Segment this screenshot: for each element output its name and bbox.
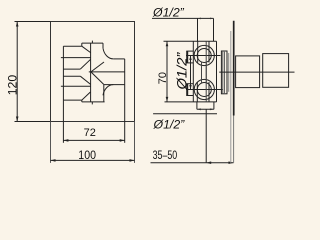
top arm bottom edge <box>63 68 80 70</box>
valve body front: left arms vertical edge <box>62 46 64 100</box>
arrow top stub left <box>198 18 202 20</box>
arrow 35-50 right <box>229 161 234 164</box>
bottom arm bottom chamfer <box>82 92 91 100</box>
upper port circle inner <box>197 49 211 63</box>
arrow 120 bottom <box>16 117 19 122</box>
dimension line 35-50 <box>151 162 234 164</box>
extension line bottom for dim 120 <box>15 121 51 123</box>
dimension line 100 <box>51 159 135 161</box>
block right edge <box>216 41 218 102</box>
wall line <box>230 31 232 163</box>
top step vertical <box>81 43 83 46</box>
lower port circle outer <box>194 79 214 99</box>
svg-text:70: 70 <box>157 72 169 84</box>
arrow 100 left <box>51 159 56 162</box>
body bottom-right arc <box>103 85 113 96</box>
escutcheon plate side <box>233 21 235 116</box>
lower circle centerline <box>186 89 223 91</box>
svg-text:Ø1/2”: Ø1/2” <box>153 117 186 131</box>
tube waist left wall <box>201 62 203 83</box>
arrow top stub right <box>210 18 214 20</box>
body mid horizontal line <box>89 71 125 73</box>
block top edge with extension to 70 dim <box>164 40 217 42</box>
bottom port leader line <box>153 113 217 115</box>
body right edge <box>124 59 126 85</box>
lower inner dia tick bottom <box>186 95 193 97</box>
upper circle centerline <box>186 55 221 57</box>
bottom stub left wall <box>196 102 198 109</box>
upper port circle outer <box>194 45 214 65</box>
arrow ports dim bottom <box>189 85 191 90</box>
tube waist right wall <box>205 62 207 83</box>
bottom arm top chamfer <box>80 76 90 84</box>
bottom arm top edge <box>63 75 80 77</box>
svg-text:120: 120 <box>6 75 20 96</box>
lower inner dia tick top <box>186 83 193 85</box>
extension line 100 right <box>134 122 136 163</box>
front view: wall plate 100x120 <box>51 22 135 122</box>
top stub right wall <box>213 18 215 41</box>
arrow 35-50 left <box>206 161 211 164</box>
bottom stub right wall <box>213 102 215 109</box>
plate extension down <box>233 116 235 163</box>
extension line 72 left <box>62 100 64 143</box>
vertical dim line between port centers <box>190 56 192 90</box>
arrow 100 right <box>130 159 135 162</box>
body inner diagonal lower <box>91 72 104 85</box>
body bottom edge right <box>104 84 125 86</box>
svg-text:35–50: 35–50 <box>153 149 178 163</box>
arrow 120 top <box>16 22 19 27</box>
top arm bottom chamfer <box>80 59 90 69</box>
top arm top chamfer <box>82 46 91 52</box>
block bottom edge with extension to 70 dim <box>165 101 217 103</box>
svg-text:Ø1/2”: Ø1/2” <box>174 51 189 90</box>
handle hub rect <box>236 56 260 88</box>
tube top cap <box>82 42 103 44</box>
bottom stub end cap <box>197 108 214 110</box>
top stub wall continuation right <box>208 41 210 62</box>
neck inner vertical 2 <box>222 51 224 94</box>
lower port circle inner <box>197 83 211 97</box>
svg-text:Ø1/2”: Ø1/2” <box>152 6 185 20</box>
tube right wall lower <box>103 85 105 102</box>
dimension line 120 <box>16 22 18 122</box>
center vertical through block <box>205 41 207 102</box>
neck-plate joint line <box>228 53 230 92</box>
upper dia arrow bar <box>186 51 188 63</box>
tube right wall upper <box>102 43 104 48</box>
tube bottom tick <box>91 102 93 105</box>
lower dia arrow bar <box>186 84 188 96</box>
tube top tick <box>91 41 93 44</box>
bottom stub wall continuation right <box>208 82 210 102</box>
dimension line 70 <box>166 41 168 102</box>
dimension line 72 <box>63 139 124 141</box>
top arm top edge <box>63 45 81 47</box>
body top edge right <box>113 58 124 60</box>
arrow 72 left <box>63 139 68 142</box>
neck inner vertical <box>224 51 226 94</box>
block left edge <box>192 41 194 102</box>
body inner diagonal upper <box>91 62 104 72</box>
arrow 72 right <box>120 139 125 142</box>
arrow bottom stub right <box>210 108 214 110</box>
top stub wall continuation left <box>197 41 199 62</box>
bottom stub extension line down <box>205 109 207 162</box>
extension line top for dim 120 <box>15 21 51 23</box>
bottom stub wall continuation left <box>196 82 198 102</box>
arrow ports dim top <box>189 56 191 61</box>
handle knob rect <box>263 54 289 88</box>
tube left wall <box>90 43 92 102</box>
arrow 70 top <box>166 41 169 46</box>
top stub left wall <box>197 18 199 41</box>
arrow bottom stub left <box>197 108 201 110</box>
bottom arm bottom edge <box>63 99 81 101</box>
top arm mid line <box>61 57 91 59</box>
tube bottom cap <box>82 101 105 103</box>
upper inner dia tick top <box>186 50 193 52</box>
body top-right arc <box>103 48 113 59</box>
handle axis line <box>219 71 294 73</box>
side view: top port leader line <box>152 17 214 19</box>
cartridge neck rect <box>221 51 227 94</box>
extension line 100 left <box>50 122 52 163</box>
svg-text:72: 72 <box>84 127 96 139</box>
arrow 70 bottom <box>166 97 169 102</box>
svg-text:100: 100 <box>78 149 96 162</box>
bottom arm mid line <box>61 85 91 87</box>
extension line 72 right <box>124 85 126 143</box>
upper inner dia tick bottom <box>186 62 193 64</box>
bottom step vertical <box>81 100 83 102</box>
